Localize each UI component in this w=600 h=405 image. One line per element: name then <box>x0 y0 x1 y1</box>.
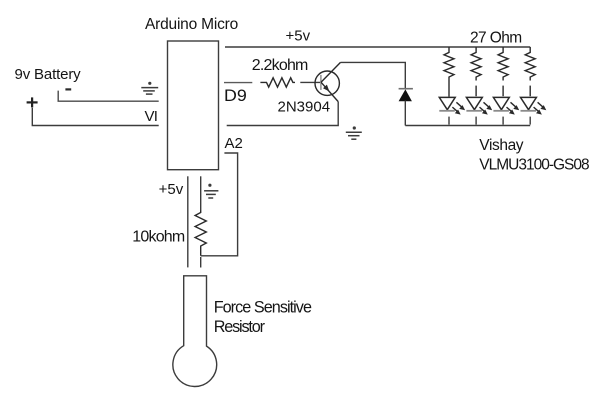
svg-text:Vishay: Vishay <box>479 137 523 154</box>
battery positive terminal + <box>27 97 38 107</box>
wire Arduino ground pin down <box>200 176 202 210</box>
ground G3 near emitter <box>346 126 362 139</box>
svg-text:VLMU3100-GS08: VLMU3100-GS08 <box>479 156 589 173</box>
resistor R4 27 Ohm <box>525 47 535 96</box>
wire resistor to transistor base <box>300 81 320 83</box>
svg-text:2N3904: 2N3904 <box>278 98 331 115</box>
transistor Q1 2N3904 <box>315 62 341 101</box>
Arduino Micro body U1 <box>168 41 219 170</box>
svg-text:+5v: +5v <box>286 28 311 45</box>
resistor R6 10kohm <box>195 211 206 256</box>
svg-text:Resistor: Resistor <box>214 318 266 336</box>
svg-text:Arduino Micro: Arduino Micro <box>145 16 238 33</box>
LED D4 <box>493 97 519 124</box>
LED D3 <box>466 97 492 124</box>
wire battery minus to ground <box>58 91 159 102</box>
LED D5 <box>521 97 547 124</box>
svg-text:D9: D9 <box>224 87 247 105</box>
battery negative terminal - <box>65 88 71 90</box>
resistor R5 2.2kohm <box>260 78 295 87</box>
resistor R2 27 Ohm <box>471 47 481 96</box>
wire battery plus to VI pin <box>32 108 158 126</box>
svg-text:10kohm: 10kohm <box>132 228 185 245</box>
ground G1 near battery <box>141 82 158 94</box>
ground G2 below Arduino <box>204 184 218 198</box>
wire +5v rail from Arduino top <box>225 46 530 48</box>
svg-text:VI: VI <box>145 108 158 125</box>
wire +5v from Arduino bottom to FSR <box>187 176 189 267</box>
resistor R1 27 Ohm <box>444 47 454 97</box>
LED D2 <box>439 97 465 124</box>
svg-text:+5v: +5v <box>159 181 184 198</box>
wire divider node to A2 <box>201 153 238 256</box>
pin stub D9 <box>224 82 252 84</box>
force sensitive resistor FSR1 <box>173 276 217 387</box>
wire divider node down to FSR <box>200 257 202 268</box>
svg-text:Force Sensitive: Force Sensitive <box>214 298 312 316</box>
svg-text:27 Ohm: 27 Ohm <box>470 30 522 47</box>
resistor R3 27 Ohm <box>498 47 508 96</box>
wire transistor emitter down and left rail <box>227 102 339 126</box>
svg-text:9v Battery: 9v Battery <box>15 66 82 83</box>
wire transistor collector to diode <box>341 62 406 88</box>
diode D1 <box>399 89 413 126</box>
svg-text:A2: A2 <box>225 135 243 152</box>
svg-text:2.2kohm: 2.2kohm <box>252 57 308 74</box>
wire LED bottom rail <box>405 125 530 127</box>
